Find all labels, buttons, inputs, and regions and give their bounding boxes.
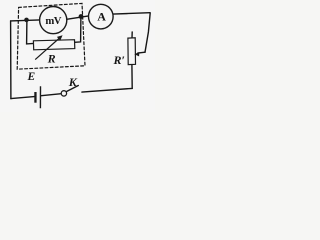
voltmeter mV (40, 7, 67, 34)
junction node left (24, 18, 29, 23)
wire mV to A (67, 16, 89, 19)
wire R branch drop (27, 20, 34, 44)
rheostat R' body (128, 38, 136, 65)
svg-text:R: R (47, 51, 56, 65)
svg-text:R′: R′ (113, 53, 125, 67)
wire left rail (10, 21, 12, 99)
switch K pivot (61, 91, 66, 96)
wire top-left (11, 20, 40, 21)
wire bottom right to switch (82, 88, 132, 92)
wire battery to switch (41, 94, 61, 96)
svg-text:E: E (27, 71, 36, 83)
battery E negative plate (34, 92, 36, 103)
wire slider arm of R' (138, 51, 145, 54)
wire bottom left to battery (11, 97, 34, 99)
resistor R arrow (35, 35, 62, 59)
wire A to top-right corner (113, 13, 150, 14)
junction node right (79, 14, 84, 19)
wire R' top stub (131, 32, 133, 38)
rheostat R' arrowhead (134, 52, 139, 56)
ammeter A (89, 4, 114, 29)
wire R right riser (75, 17, 81, 42)
wire R' bottom lead (131, 64, 133, 88)
dashed enclosure box (17, 3, 85, 69)
wire right rail (145, 13, 150, 52)
battery E positive plate (39, 86, 41, 108)
svg-text:A: A (97, 10, 106, 24)
wire switch blade (66, 86, 78, 92)
resistor R body (33, 40, 74, 50)
svg-text:K: K (68, 75, 78, 89)
svg-text:mV: mV (45, 15, 61, 27)
